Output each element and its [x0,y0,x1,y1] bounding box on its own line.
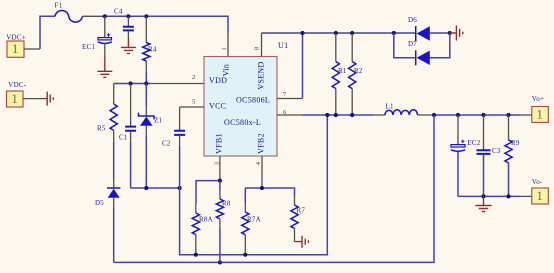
resistor R2 [349,33,363,115]
svg-text:VCC: VCC [209,102,226,111]
svg-text:VFB1: VFB1 [215,133,224,154]
svg-text:R8A: R8A [199,216,213,224]
node R4/top-rail [144,14,148,18]
wire C2 column down to upper bottom line and riser to output [180,115,328,255]
inductor L1 [385,102,418,115]
node R1/rail [334,31,338,35]
wire top rail to IC pin 1 [82,16,228,33]
connector Vo- [532,178,549,204]
node Z1/VDD [144,81,148,85]
svg-text:R7: R7 [297,207,306,215]
node pin4 [260,186,264,190]
pin 5 stub [180,99,204,108]
node R2/rail [350,31,354,35]
node R9/bottom line [506,194,510,198]
svg-text:R9: R9 [511,139,520,147]
ground below EC1 [97,57,112,77]
connector Vo+ [532,95,549,123]
pin 1 stub [221,33,228,57]
ground output (below C3) [476,196,492,211]
svg-text:EC1: EC1 [82,43,95,51]
zener Z1 [139,84,163,189]
svg-text:D6: D6 [408,16,417,24]
node R1/output [334,113,338,117]
node C4/top-rail [126,14,130,18]
svg-text:VDD: VDD [209,76,227,85]
svg-text:C2: C2 [162,140,171,148]
resistor R7 [291,196,306,242]
svg-text:D5: D5 [95,199,104,207]
svg-text:Vo-: Vo- [532,178,543,186]
svg-text:D7: D7 [408,40,417,48]
node EC2/output [456,113,460,117]
resistor R9 [505,115,520,196]
svg-text:U1: U1 [278,41,288,50]
node R7A/upper bottom line [243,253,247,257]
svg-text:VFB2: VFB2 [257,133,266,154]
node C1/VDD [129,81,133,85]
svg-text:1: 1 [12,92,19,106]
wire pin3 jog to R8A [196,181,220,203]
wire feedback drop and lower bus [114,115,434,262]
ground top-right (rotated right) [450,26,463,41]
capacitor C4 [114,8,134,39]
svg-text:R8: R8 [222,200,231,208]
pin 8 stub [254,33,262,57]
svg-text:1: 1 [221,47,228,51]
svg-text:1: 1 [12,42,19,56]
svg-text:OC5806L: OC5806L [236,96,270,105]
svg-text:1: 1 [537,189,544,203]
node feedback drop/output [432,113,436,117]
resistor R5 [97,84,117,181]
capacitor C1 [119,84,136,189]
fuse F1 [55,2,83,23]
svg-text:R5: R5 [97,125,106,133]
diode D6 [408,16,430,41]
diode D7 [408,40,430,65]
pin 4 stub [255,156,262,188]
svg-text:4: 4 [255,161,262,165]
svg-text:OC580x-L: OC580x-L [224,118,261,127]
node pin3 [218,179,222,183]
ground R7 (rotated right) [295,236,309,248]
capacitor C2 [162,107,185,148]
svg-text:Z1: Z1 [154,117,163,125]
wire VSEND rail (pin 8 net, y=33) [262,32,450,34]
svg-text:F1: F1 [55,2,63,10]
node D6 cathode/ground [448,31,452,35]
svg-text:C1: C1 [119,134,128,142]
node pin7/rail [300,31,304,35]
svg-text:VDC+: VDC+ [6,34,26,42]
svg-text:6: 6 [283,109,287,116]
resistor R8 [216,181,231,263]
resistor R4 [143,16,157,83]
node EC1/top-rail [103,14,107,18]
svg-text:C3: C3 [492,147,501,155]
svg-text:2: 2 [192,74,196,81]
wire VDD line (pin 2 net) [114,83,204,85]
svg-text:R4: R4 [148,46,157,54]
svg-text:C4: C4 [114,8,123,16]
op-amp U1 (IC OC5806L) [204,41,288,156]
capacitor EC1 [82,16,112,57]
svg-text:5: 5 [192,99,196,106]
svg-text:VSEND: VSEND [257,61,266,89]
svg-text:VDC-: VDC- [8,81,27,89]
node R9/output [506,113,510,117]
ground VDC- (rotated right) [45,92,54,106]
node R2/output [350,113,354,117]
node R8A/upper bottom line [194,253,198,257]
node C3/output [481,113,485,117]
resistor R1 [332,33,347,115]
svg-text:1: 1 [537,108,544,122]
pin 3 stub [214,156,221,181]
svg-text:EC2: EC2 [467,139,480,147]
svg-text:3: 3 [214,162,221,166]
svg-text:R2: R2 [354,67,363,75]
node R8/lower bus [218,260,222,264]
wire D6/D7 parallel loop [394,33,450,58]
resistor R7A [242,188,261,255]
node C2/mid line [178,186,182,190]
node Z1/mid line [144,186,148,190]
wire output line (pin 6 net) [303,114,533,116]
svg-text:7: 7 [283,91,287,98]
wire VDC+ riser to top rail [40,16,55,49]
wire output bottom line [458,195,532,197]
diode D5 [95,180,120,262]
svg-text:L1: L1 [386,102,395,110]
svg-text:8: 8 [254,47,261,51]
node drop/output [325,113,329,117]
capacitor EC2 [451,115,481,196]
resistor R8A [192,203,213,255]
wire mid line (C1/Z1/C2 bottoms) [131,187,180,189]
svg-text:R7A: R7A [247,216,261,224]
ground below C4 [121,38,136,53]
svg-text:R1: R1 [338,67,347,75]
pin 7 stub and riser [277,33,303,99]
connector VDC+ [6,34,40,58]
wire pin4 line to R7A and R7 [245,188,294,196]
node C3/bottom line [481,194,485,198]
pin 6 stub [277,109,303,116]
capacitor C3 [477,115,501,196]
node D6-D7 left/rail [392,31,396,35]
svg-text:Vin: Vin [222,64,231,76]
connector VDC- [7,81,45,107]
svg-text:Vo+: Vo+ [532,95,544,103]
